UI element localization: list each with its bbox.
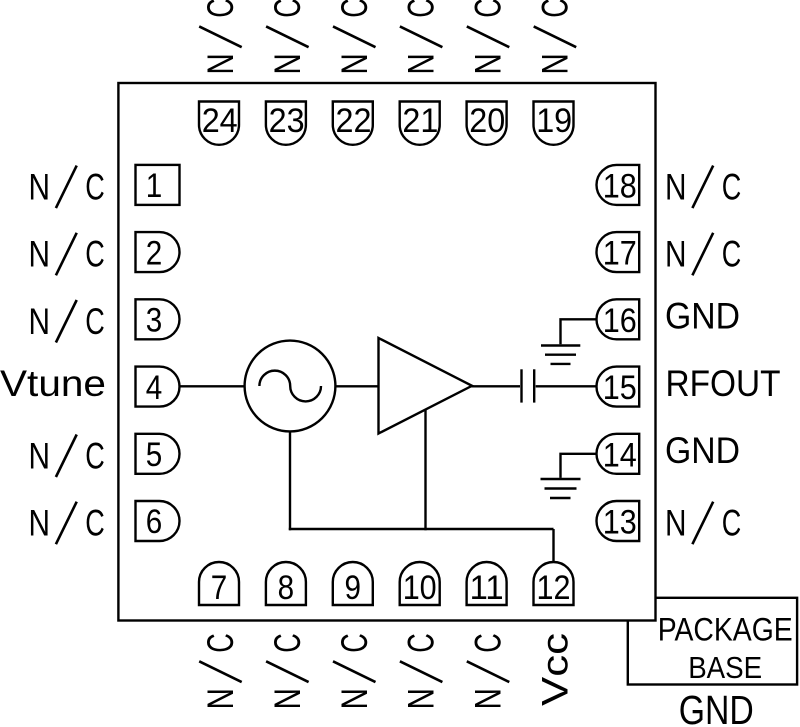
pin 18 — [597, 165, 640, 206]
wire oscillator to amplifier — [335, 385, 378, 387]
label GND pin 14 — [665, 430, 740, 471]
svg-text:GND: GND — [665, 296, 740, 337]
wire pin16 to ground — [561, 319, 598, 344]
label N/C pin 24 — [199, 0, 242, 75]
svg-text:15: 15 — [603, 369, 637, 407]
label GND package base — [679, 687, 754, 727]
pin 8 — [266, 562, 306, 607]
capacitor — [522, 369, 535, 402]
pin 5 — [136, 434, 180, 474]
pin 12 — [534, 562, 574, 607]
svg-text:12: 12 — [537, 569, 571, 607]
wire pin4 to oscillator — [180, 385, 246, 387]
label N/C pin 7 — [199, 633, 242, 709]
pin 6 — [136, 501, 180, 541]
pin 3 — [136, 299, 180, 339]
pin 10 — [400, 562, 440, 607]
pin 4 — [136, 367, 180, 407]
pin 16 — [597, 299, 640, 340]
svg-text:4: 4 — [146, 369, 163, 407]
wire pin14 to ground — [561, 454, 598, 478]
svg-text:GND: GND — [665, 430, 740, 471]
pin 17 — [597, 232, 640, 273]
svg-text:19: 19 — [536, 102, 572, 140]
svg-text:16: 16 — [603, 302, 637, 340]
pin 13 — [597, 501, 640, 542]
label N/C pin 3 — [29, 300, 105, 343]
svg-text:BASE: BASE — [688, 650, 762, 685]
pin 1 — [136, 165, 180, 205]
label BASE — [688, 650, 762, 685]
label N/C pin 19 — [534, 0, 577, 75]
label N/C pin 6 — [29, 502, 105, 545]
pin 9 — [333, 562, 373, 607]
svg-text:6: 6 — [146, 503, 163, 541]
svg-text:17: 17 — [603, 235, 637, 273]
wire oscillator to Vcc bus — [289, 431, 291, 530]
svg-text:21: 21 — [402, 102, 438, 140]
pin 19 — [534, 102, 574, 145]
label N/C pin 17 — [665, 233, 741, 276]
svg-text:PACKAGE: PACKAGE — [658, 612, 793, 648]
svg-text:18: 18 — [603, 167, 637, 205]
svg-text:9: 9 — [345, 569, 362, 607]
pin 7 — [199, 562, 239, 607]
label N/C pin 23 — [266, 0, 309, 75]
svg-text:7: 7 — [211, 569, 228, 607]
wire capacitor to pin15 — [536, 385, 597, 387]
label RFOUT pin 15 — [666, 363, 781, 404]
label N/C pin 18 — [665, 166, 741, 209]
svg-text:5: 5 — [146, 436, 163, 474]
oscillator — [245, 341, 336, 432]
label N/C pin 22 — [333, 0, 376, 75]
label Vcc pin 12 — [535, 633, 576, 706]
ground near pin16 — [541, 346, 580, 364]
wire Vcc bus — [289, 528, 554, 530]
label N/C pin 8 — [266, 633, 309, 709]
svg-text:24: 24 — [202, 102, 238, 140]
svg-text:1: 1 — [146, 167, 163, 205]
wire amplifier to capacitor — [471, 385, 520, 387]
svg-text:20: 20 — [469, 102, 505, 140]
label N/C pin 5 — [29, 435, 105, 478]
label N/C pin 21 — [400, 0, 443, 75]
pin 11 — [467, 562, 507, 607]
label GND pin 16 — [665, 296, 740, 337]
label N/C pin 2 — [29, 233, 105, 276]
svg-text:3: 3 — [146, 302, 163, 340]
svg-text:Vcc: Vcc — [535, 633, 576, 706]
label PACKAGE — [658, 612, 793, 648]
svg-text:11: 11 — [470, 569, 504, 607]
label N/C pin 11 — [467, 633, 510, 709]
label N/C pin 13 — [665, 502, 741, 545]
pin 22 — [333, 102, 373, 145]
label N/C pin 20 — [467, 0, 510, 75]
pin 2 — [136, 232, 180, 272]
pin 21 — [400, 102, 440, 145]
pin 20 — [467, 102, 507, 145]
svg-text:22: 22 — [336, 102, 372, 140]
svg-text:2: 2 — [146, 234, 163, 272]
svg-text:8: 8 — [278, 569, 295, 607]
svg-text:13: 13 — [603, 504, 637, 542]
svg-text:Vtune: Vtune — [0, 363, 106, 404]
label N/C pin 9 — [333, 633, 376, 709]
ground near pin14 — [541, 479, 581, 498]
svg-text:GND: GND — [679, 687, 754, 727]
wire amplifier to Vcc bus — [424, 410, 426, 530]
svg-text:14: 14 — [603, 436, 637, 474]
pin 23 — [266, 102, 306, 145]
label Vtune pin 4 — [0, 363, 106, 404]
label N/C pin 10 — [400, 633, 443, 709]
wire bus to pin12 — [552, 529, 554, 563]
amplifier — [379, 338, 473, 434]
pin 14 — [597, 434, 640, 475]
package outline — [118, 83, 655, 621]
pin 15 — [597, 367, 640, 408]
svg-text:23: 23 — [269, 102, 305, 140]
label N/C pin 1 — [29, 166, 105, 209]
svg-text:10: 10 — [403, 569, 437, 607]
svg-text:RFOUT: RFOUT — [666, 363, 781, 404]
package base box — [628, 598, 797, 685]
pin 24 — [199, 102, 239, 145]
